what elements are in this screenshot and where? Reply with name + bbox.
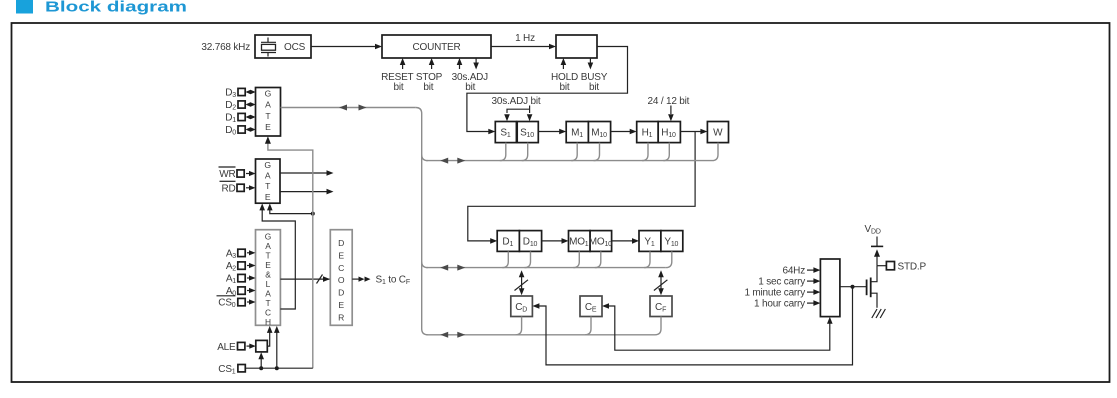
svg-text:OCS: OCS: [284, 42, 306, 53]
svg-text:1 sec carry: 1 sec carry: [758, 277, 805, 288]
selector input arrows: [807, 267, 820, 306]
data bus row 3: [427, 334, 656, 336]
wire GATE2 output WR: [280, 170, 334, 176]
decoder block: [330, 230, 352, 326]
pin A3: [226, 248, 256, 260]
wire GATE to bus spine: [281, 105, 416, 111]
register Y1: [639, 231, 661, 252]
30s.ADJ output arrow: [473, 58, 479, 70]
bus taps row 1: [500, 143, 718, 161]
svg-text:bit: bit: [465, 82, 475, 93]
wire GATE2 output RD: [280, 189, 334, 195]
svg-text:30s.ADJ bit: 30s.ADJ bit: [492, 96, 541, 107]
register Y10: [661, 231, 683, 252]
wire D10 to MO1: [542, 238, 569, 244]
svg-text:RD: RD: [221, 183, 235, 194]
ALE latch box: [256, 340, 267, 352]
wire carry to CD: [532, 285, 854, 365]
bus link to CD: [515, 270, 529, 295]
wire select tap to GATE2: [267, 203, 315, 215]
wire to day register: [468, 132, 695, 244]
pin D1: [225, 113, 255, 125]
oscillator OCS box: [255, 35, 311, 58]
svg-text:32.768 kHz: 32.768 kHz: [201, 42, 250, 53]
pin ALE: [217, 342, 256, 353]
wire enable GATE-LATCH to GATE2: [259, 203, 295, 309]
24/12 bit set arrow: [668, 106, 674, 122]
30s.ADJ set arrows: [504, 106, 532, 122]
wire COUNTER to divider: [491, 44, 556, 50]
selector inputs labels: [744, 266, 805, 310]
30s.ADJ input arrow: [457, 58, 463, 69]
register S10: [517, 122, 538, 143]
STOP bit input arrow: [429, 58, 435, 69]
divider box: [556, 35, 597, 58]
pin D0: [225, 125, 255, 137]
wire ALE latch to GATE-LATCH: [267, 326, 273, 346]
BUSY bit output arrow: [588, 58, 594, 70]
wire S10 to M1: [538, 129, 566, 135]
wire CS1 run: [246, 326, 313, 370]
RESET bit input arrow: [400, 58, 406, 69]
gate and latch block: [256, 230, 281, 326]
wire CS1 to latch: [258, 352, 264, 370]
register D1: [497, 231, 519, 252]
section bullet: [16, 0, 33, 14]
bus link to CF: [654, 270, 668, 295]
crystal symbol: [261, 38, 276, 57]
label S1 to CF: [352, 275, 410, 287]
bus spine: [416, 108, 428, 335]
ground: [872, 309, 886, 318]
wire OCS to COUNTER: [311, 44, 382, 50]
register MO10: [590, 231, 612, 252]
svg-text:DECODER: DECODER: [338, 238, 345, 322]
register MO1: [569, 231, 591, 252]
pin A2: [226, 261, 256, 273]
pin CS1: [218, 364, 245, 376]
wire H10 to W: [680, 129, 707, 135]
register CE: [580, 296, 602, 317]
selector box: [820, 259, 840, 317]
data bus row 2: [427, 267, 666, 269]
svg-text:ALE: ALE: [217, 342, 236, 353]
gate U2 control GATE: [256, 159, 281, 203]
pin D2: [225, 100, 255, 112]
pin A1: [226, 274, 256, 286]
register M10: [588, 122, 610, 143]
svg-text:bit: bit: [423, 82, 433, 93]
register CD: [511, 296, 533, 317]
register CF: [650, 296, 672, 317]
svg-text:S1 to CF: S1 to CF: [376, 275, 410, 287]
data bus row 1: [427, 160, 713, 162]
svg-text:1 Hz: 1 Hz: [515, 33, 535, 44]
wire carry to CE and selector: [602, 303, 833, 350]
pin D3: [225, 88, 255, 100]
wire CS1 spine to GATE1: [265, 136, 313, 368]
svg-text:WR: WR: [219, 169, 235, 180]
pin STD.P: [877, 261, 926, 272]
svg-text:bit: bit: [560, 82, 570, 93]
wire M10 to H1: [611, 129, 637, 135]
transistor Q1: [867, 265, 877, 307]
svg-text:bit: bit: [589, 82, 599, 93]
wire GATE-LATCH to DECODER: [280, 275, 330, 284]
counter COUNTER box: [382, 35, 491, 58]
pin A0: [226, 286, 256, 298]
svg-text:bit: bit: [394, 82, 404, 93]
register S1: [495, 122, 516, 143]
HOLD bit input arrow: [561, 58, 567, 69]
svg-text:GATE: GATE: [265, 89, 272, 133]
register H10: [658, 122, 680, 143]
svg-text:Block diagram: Block diagram: [45, 0, 187, 16]
pin WR: [219, 167, 256, 180]
svg-text:64Hz: 64Hz: [782, 266, 805, 277]
svg-text:1 minute carry: 1 minute carry: [744, 288, 805, 299]
svg-text:24 / 12 bit: 24 / 12 bit: [648, 96, 690, 107]
wire MO10 to Y1: [612, 238, 639, 244]
bus taps row 3: [516, 317, 661, 335]
gate U1 data GATE: [256, 88, 281, 137]
wire divider to seconds register: [467, 47, 628, 135]
bus taps row 2: [502, 251, 672, 267]
svg-text:STD.P: STD.P: [898, 261, 927, 272]
register M1: [566, 122, 588, 143]
svg-text:COUNTER: COUNTER: [412, 42, 460, 53]
register H1: [637, 122, 659, 143]
svg-text:1 hour carry: 1 hour carry: [754, 299, 805, 310]
svg-text:GATE: GATE: [264, 160, 271, 202]
svg-text:W: W: [713, 128, 723, 139]
register D10: [519, 231, 541, 252]
pin CS0: [217, 296, 256, 309]
wire selector to gate: [840, 286, 867, 288]
svg-text:GATE&LATCH: GATE&LATCH: [265, 232, 272, 328]
register W: [707, 122, 728, 143]
VDD symbol: [871, 237, 883, 266]
pin RD: [220, 181, 256, 194]
